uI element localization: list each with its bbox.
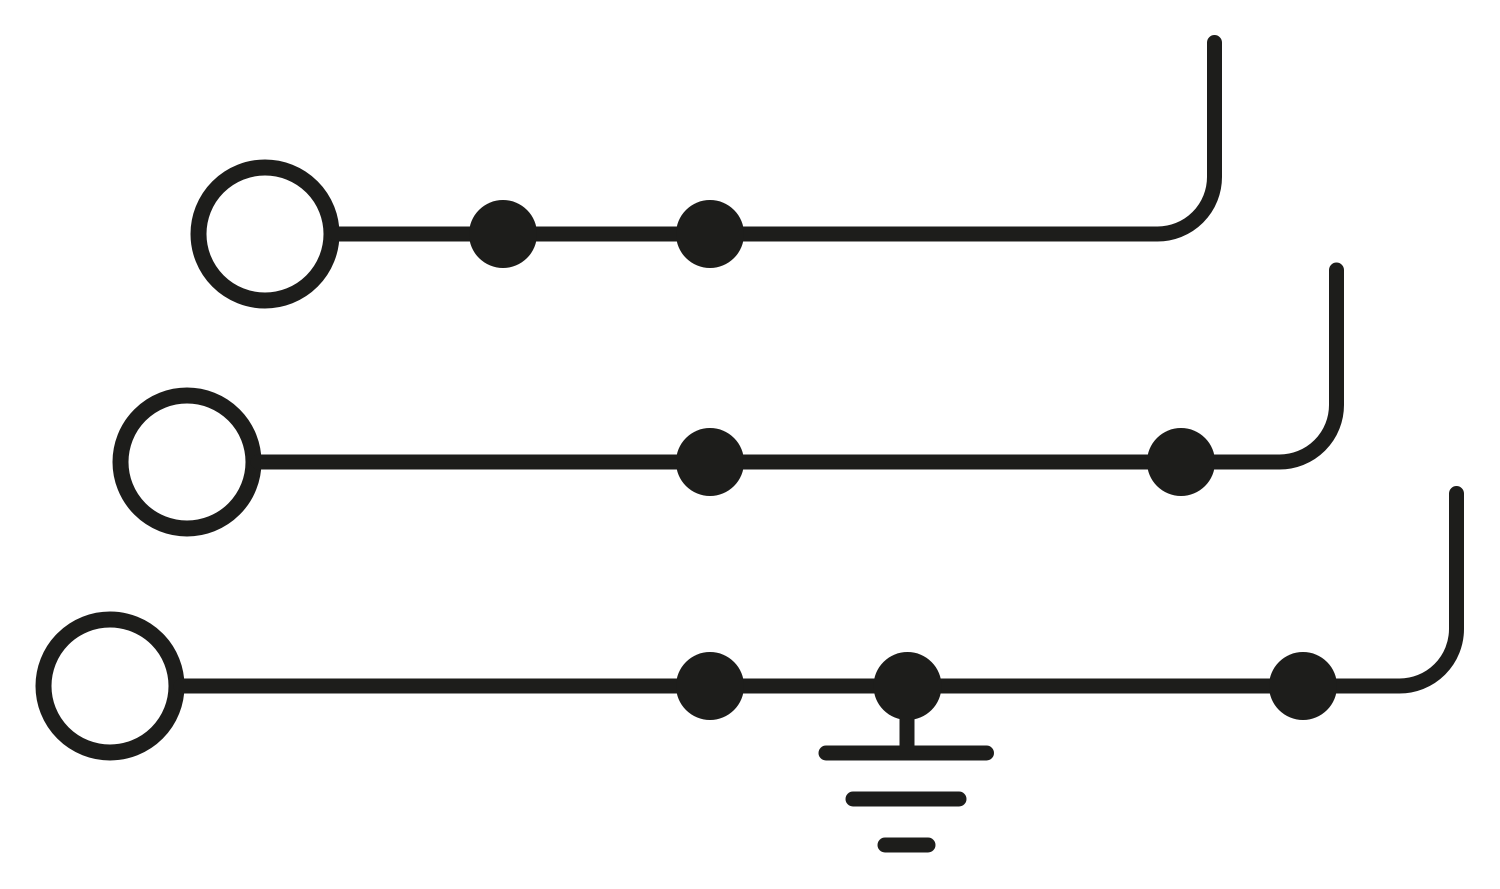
terminal circle (level 3, clamp point 3.1) — [44, 620, 177, 753]
junction dot (level 1, node B) — [676, 200, 744, 268]
terminal circle (level 1, clamp point 1.1) — [199, 168, 332, 301]
ground (earth symbol middle bar) — [853, 792, 959, 807]
wire (level 3 horizontal rail with corner up) — [181, 494, 1457, 687]
junction dot (level 2, node C) — [676, 428, 744, 496]
wire (level 2 horizontal rail with corner up) — [258, 270, 1337, 462]
ground (earth symbol top bar) — [826, 746, 987, 761]
terminal circle (level 2, clamp point 2.1) — [121, 396, 254, 529]
junction dot (level 3, node E) — [676, 652, 744, 720]
ground (earth symbol stem) — [900, 695, 915, 753]
junction dot (level 2, node D) — [1147, 428, 1215, 496]
junction dot (level 3, node F) — [1269, 652, 1337, 720]
wire (level 1 horizontal rail with corner up to plug-in zone) — [336, 43, 1215, 235]
ground (earth symbol bottom bar) — [885, 838, 928, 853]
junction dot (level 1, node A) — [469, 200, 537, 268]
junction dot (level 3, PE node) — [874, 652, 942, 720]
